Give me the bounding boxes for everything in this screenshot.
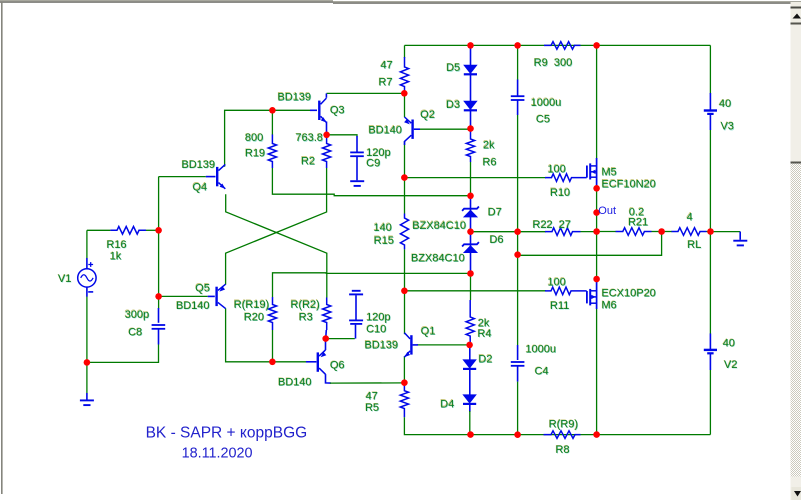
svg-text:1k: 1k: [110, 251, 122, 263]
wire Q1 base lead: [413, 344, 418, 346]
svg-text:Q4: Q4: [193, 181, 208, 193]
svg-text:R22 27: R22 27: [533, 219, 572, 231]
svg-text:Q1: Q1: [421, 325, 436, 337]
junction D7/D6/R22: [467, 228, 474, 235]
wire R15 bottom down to Q1 collector: [404, 249, 406, 334]
wire C4 to bottom rail: [517, 382, 519, 435]
svg-text:BD139: BD139: [278, 91, 312, 103]
wire M6 drain to bottom rail: [596, 309, 598, 435]
wire top supply rail V3+: [405, 44, 711, 46]
mosfet M6 ECX10P20 P-channel: [587, 289, 597, 306]
svg-text:47: 47: [381, 60, 393, 72]
junction M5 source: [593, 185, 600, 192]
svg-text:47: 47: [366, 391, 378, 403]
junction output/R21/R22: [593, 228, 600, 235]
svg-text:4: 4: [687, 211, 693, 223]
svg-text:40: 40: [719, 98, 731, 110]
wire V1 to R16: [87, 229, 111, 231]
wire Q5 collector to Q6 base: [226, 308, 306, 361]
svg-text:R5: R5: [365, 402, 379, 414]
ground at C9: [350, 181, 364, 186]
wire rail to D5 anode: [470, 45, 472, 48]
junction V1-/C8 return: [84, 359, 91, 366]
wire D4 to bottom rail: [469, 411, 471, 435]
wire C8 top lead: [158, 308, 160, 323]
resistor R9 300: [544, 42, 581, 50]
junction Q1 emitter/R5/Q6 collector: [401, 379, 408, 386]
capacitor C4 1000u: [511, 362, 525, 366]
wire R2 bottom cross to Q5 emitter: [226, 168, 327, 285]
resistor R21 0.2: [616, 228, 652, 236]
wire V2- to bottom rail: [709, 370, 711, 435]
junction D6 anode/R4/wire: [467, 270, 474, 277]
wire V2 bottom lead: [709, 354, 711, 371]
svg-text:D2: D2: [478, 353, 492, 365]
svg-text:R20: R20: [244, 311, 264, 323]
svg-text:R8: R8: [556, 444, 570, 456]
svg-text:R11: R11: [550, 300, 569, 312]
wire V1 top lead: [86, 258, 88, 269]
wire Q4 emitter cross to R3: [226, 194, 327, 297]
wire R7 top lead from rail: [404, 45, 406, 58]
wire Q4 base lead: [206, 176, 216, 178]
battery V2 40: [704, 350, 717, 353]
wire D6 leads: [470, 232, 472, 271]
svg-text:M5: M5: [602, 166, 617, 178]
svg-text:R7: R7: [379, 77, 393, 89]
svg-text:R2: R2: [301, 155, 315, 167]
resistor R6 2k: [466, 130, 474, 162]
svg-text:BD139: BD139: [365, 339, 399, 351]
wire Q6 node to C10: [326, 338, 355, 340]
svg-text:C8: C8: [128, 326, 142, 338]
wire C9 top lead: [356, 136, 358, 152]
svg-text:R21: R21: [628, 216, 648, 228]
svg-text:D4: D4: [440, 398, 454, 410]
svg-text:800: 800: [245, 132, 263, 144]
resistor R16 1k: [110, 227, 146, 235]
wire Q6 emitter lead: [325, 339, 327, 351]
wire R3 bottom to Q6 node: [325, 330, 328, 339]
wire output to R21: [597, 231, 616, 233]
junction R21/RL/feedback: [658, 228, 665, 235]
junction Q3 base/R19: [269, 107, 276, 114]
svg-text:BZX84C10: BZX84C10: [411, 253, 465, 265]
junction Q5 base/C8: [155, 293, 162, 300]
wire C4 top lead: [517, 345, 519, 360]
wire ground node to V2+: [709, 232, 711, 335]
wire Q5 base lead: [208, 295, 215, 297]
wire Q1 emitter to R5 node: [403, 356, 405, 383]
svg-text:R10: R10: [550, 187, 570, 199]
diode D5: [464, 65, 477, 74]
svg-text:140: 140: [374, 222, 392, 234]
svg-text:R(R19): R(R19): [234, 299, 269, 311]
wire Q4 collector to Q3 base: [225, 110, 310, 167]
wire Q6 collector corner: [326, 374, 332, 383]
wire R21 node feedback to C-node: [518, 232, 662, 256]
svg-text:C5: C5: [536, 114, 550, 126]
wire Q4 base down to R16 node: [158, 177, 160, 231]
wire Q4 base: [159, 176, 206, 178]
wire M5 channel: [596, 158, 598, 188]
junction Q1 collector/R11: [401, 288, 408, 295]
transistor Q6 BD140 PNP: [318, 350, 327, 374]
capacitor C8 300p: [152, 325, 166, 329]
wire V2 top lead: [709, 334, 711, 350]
wire R2 node to C9: [327, 135, 357, 137]
wire D2 to D4: [469, 372, 471, 395]
ground at output: [733, 241, 747, 246]
wire V3 bottom lead: [709, 114, 711, 130]
svg-text:D6: D6: [490, 234, 504, 246]
resistor RL 4: [672, 228, 707, 236]
transistor Q2 BD140 PNP (mirrored): [404, 117, 413, 141]
wire Q6 collector to R5 node: [330, 382, 404, 384]
capacitor C10 120p (with top ground bar): [349, 291, 363, 339]
wire Q3 base lead: [310, 109, 317, 111]
svg-text:ECF10N20: ECF10N20: [602, 178, 656, 190]
svg-text:BZX84C10: BZX84C10: [412, 220, 466, 232]
junction M6 source: [593, 276, 600, 283]
wire R19 top: [271, 110, 273, 135]
svg-text:Q3: Q3: [330, 105, 345, 117]
svg-text:120p: 120p: [366, 312, 390, 324]
wire Q2 base lead: [414, 128, 420, 130]
wire D7-D6 node to R22: [471, 231, 547, 233]
wire Q5 base: [159, 295, 208, 297]
wire R16 to node: [146, 229, 159, 231]
diode D4: [463, 395, 476, 404]
wire D2 leads: [469, 345, 471, 372]
svg-text:BD140: BD140: [176, 300, 210, 312]
transistor Q4 BD139 NPN: [217, 164, 225, 188]
wire RL to ground node: [707, 231, 711, 233]
wire R21 node to RL: [662, 231, 672, 233]
svg-text:2k: 2k: [483, 139, 495, 151]
wire C8 top: [158, 296, 160, 308]
junction Out node: [593, 209, 600, 216]
wire V1 bottom lead: [86, 287, 88, 297]
wire V3 top lead: [709, 93, 711, 110]
wire C5 bottom lead: [517, 100, 519, 115]
junction bottom rail/D4: [467, 431, 474, 438]
diode D3: [464, 101, 477, 110]
junction D3/Q2 base/R6: [467, 125, 474, 132]
source V1 sine: [78, 262, 96, 292]
transistor Q5 BD140 PNP: [217, 284, 226, 308]
resistor R10 100: [545, 174, 587, 182]
wire C8 bottom to V1- node: [87, 345, 159, 363]
svg-text:C9: C9: [366, 157, 380, 169]
wire Q2 collector lead: [404, 141, 406, 145]
svg-text:D3: D3: [446, 99, 460, 111]
wire C8 bottom lead: [158, 329, 160, 345]
resistor R20 R(R19): [268, 297, 276, 330]
junction rail/M5 drain: [593, 42, 600, 49]
svg-text:BD140: BD140: [278, 377, 312, 389]
junction C-node/feedback wire: [514, 251, 521, 258]
resistor R3 R(R2): [323, 298, 331, 331]
resistor R22 27: [545, 228, 581, 236]
junction bottom rail/M6: [593, 431, 600, 438]
wire D7 leads: [470, 196, 472, 229]
wire D6 anode to R4: [470, 274, 472, 301]
junction R3/Q6 emitter/C10: [322, 335, 329, 342]
ground at V1: [80, 400, 94, 405]
svg-text:R16: R16: [107, 239, 127, 251]
mosfet M5 ECF10N20 N-channel: [587, 163, 597, 179]
svg-text:763.8: 763.8: [296, 132, 324, 144]
junction C5 net/R22 wire: [514, 228, 521, 235]
svg-text:BD139: BD139: [182, 159, 216, 171]
junction R20/Q5 collector wire: [269, 359, 276, 366]
svg-text:RL: RL: [687, 239, 701, 251]
svg-text:V2: V2: [724, 359, 737, 371]
wire rail to M5 drain: [596, 45, 598, 159]
svg-text:300p: 300p: [125, 309, 149, 321]
wire bottom supply rail V2-: [404, 417, 710, 434]
svg-text:100: 100: [548, 276, 566, 288]
wire rail to C5: [517, 45, 519, 80]
wire M6 channel: [596, 277, 598, 309]
wire ground stub: [710, 231, 740, 233]
wire R7 node to Q2 emitter: [404, 93, 406, 117]
svg-text:1000u: 1000u: [526, 344, 557, 356]
wire Q2 base: [414, 128, 471, 130]
svg-text:R15: R15: [374, 235, 394, 247]
junction Q2 collector/R15/R10: [401, 174, 408, 181]
zener diode D6 BZX84C10: [462, 242, 479, 252]
resistor R2 763.8: [323, 137, 331, 168]
svg-text:V1: V1: [58, 273, 71, 285]
wire R20 top / D6 anode net: [273, 273, 471, 297]
resistor R5 47: [400, 384, 408, 418]
junction Q3 emitter/R2/C9: [323, 132, 330, 139]
wire Q1 base: [417, 344, 470, 346]
wire Q6 base lead: [306, 361, 316, 363]
svg-text:Q2: Q2: [420, 109, 435, 121]
resistor R8 R(R9): [544, 431, 581, 439]
svg-text:18.11.2020: 18.11.2020: [182, 446, 253, 462]
wire R22 to output: [581, 231, 597, 233]
capacitor C9 120p: [350, 152, 364, 156]
junction R16/Q4 base net: [155, 227, 162, 234]
svg-text:100: 100: [548, 163, 566, 175]
transistor Q3 BD139 NPN: [319, 98, 326, 122]
wire V1- down: [86, 297, 88, 363]
wire ground lead: [739, 232, 741, 240]
wire R16 node to Q5 base node: [158, 230, 160, 296]
wire C4 bottom lead: [517, 366, 519, 382]
resistor R7 47: [400, 57, 408, 93]
svg-text:Out: Out: [598, 205, 616, 217]
junction R4/Q1 base/D2: [466, 342, 473, 349]
svg-text:C10: C10: [366, 324, 386, 336]
wire R15 node to R10: [404, 177, 546, 179]
wire R20 bottom: [272, 330, 274, 362]
svg-text:R4: R4: [478, 328, 492, 340]
battery V3 40: [704, 111, 717, 114]
svg-text:R9 300: R9 300: [534, 57, 573, 69]
junction rail/D5: [467, 42, 474, 49]
svg-text:D5: D5: [446, 62, 460, 74]
junction R7/Q3 collector: [401, 90, 408, 97]
resistor R19 800: [268, 135, 276, 169]
wire R6 bottom to D7 node: [470, 162, 472, 196]
wire D4 cathode lead: [469, 405, 471, 413]
svg-text:R(R9): R(R9): [549, 419, 578, 431]
wire M5 source to M6 source (output): [596, 188, 598, 277]
svg-text:R19: R19: [245, 147, 265, 159]
wire C5 to C4 (output node): [517, 115, 519, 345]
wire R19 bottom to D7 node: [272, 168, 470, 196]
junction R19 net/D7: [467, 193, 474, 200]
wire V3- to ground node: [709, 130, 711, 232]
resistor R4 2k: [466, 300, 474, 342]
svg-text:D7: D7: [488, 207, 502, 219]
wire R21 right: [652, 231, 662, 233]
svg-text:R6: R6: [483, 157, 497, 169]
svg-text:1000u: 1000u: [531, 97, 562, 109]
junction rail/C5: [514, 42, 521, 49]
wire Q3 collector lead: [325, 93, 327, 97]
resistor R15 140: [400, 214, 408, 250]
zener diode D7 BZX84C10: [462, 207, 479, 217]
diode D2: [463, 360, 476, 369]
wire Q3 emitter to R2 node: [326, 122, 328, 135]
capacitor C5 1000u: [511, 96, 525, 100]
svg-text:M6: M6: [602, 300, 617, 312]
wire Q2 collector down to R15: [404, 141, 406, 214]
wire Q3 collector to R7 node: [327, 92, 405, 94]
svg-text:Q5: Q5: [195, 282, 210, 294]
svg-text:V3: V3: [721, 121, 734, 133]
wire R11 gate net: [404, 290, 546, 292]
svg-text:BK - SAPR + коррBGG: BK - SAPR + коррBGG: [146, 424, 308, 441]
svg-text:40: 40: [723, 337, 735, 349]
wire ground lead: [86, 393, 88, 400]
wire V1 top: [86, 230, 88, 258]
svg-text:R(R2): R(R2): [291, 299, 320, 311]
svg-text:R3: R3: [299, 311, 313, 323]
wire C9 ground lead: [356, 156, 358, 180]
transistor Q1 BD139 NPN (mirrored): [404, 333, 411, 357]
junction bottom rail/C4: [514, 431, 521, 438]
svg-text:C4: C4: [535, 366, 549, 378]
wire rail to V3+: [709, 45, 711, 93]
junction RL/V3/V2/ground: [707, 228, 714, 235]
svg-text:Q6: Q6: [330, 359, 345, 371]
wire V1- to ground: [86, 362, 88, 393]
resistor R11 100: [545, 287, 587, 295]
svg-text:BD140: BD140: [368, 124, 402, 136]
wire D5-D3 string: [470, 48, 472, 126]
wire C5 top lead: [517, 80, 519, 97]
svg-text:ECX10P20: ECX10P20: [602, 288, 656, 300]
